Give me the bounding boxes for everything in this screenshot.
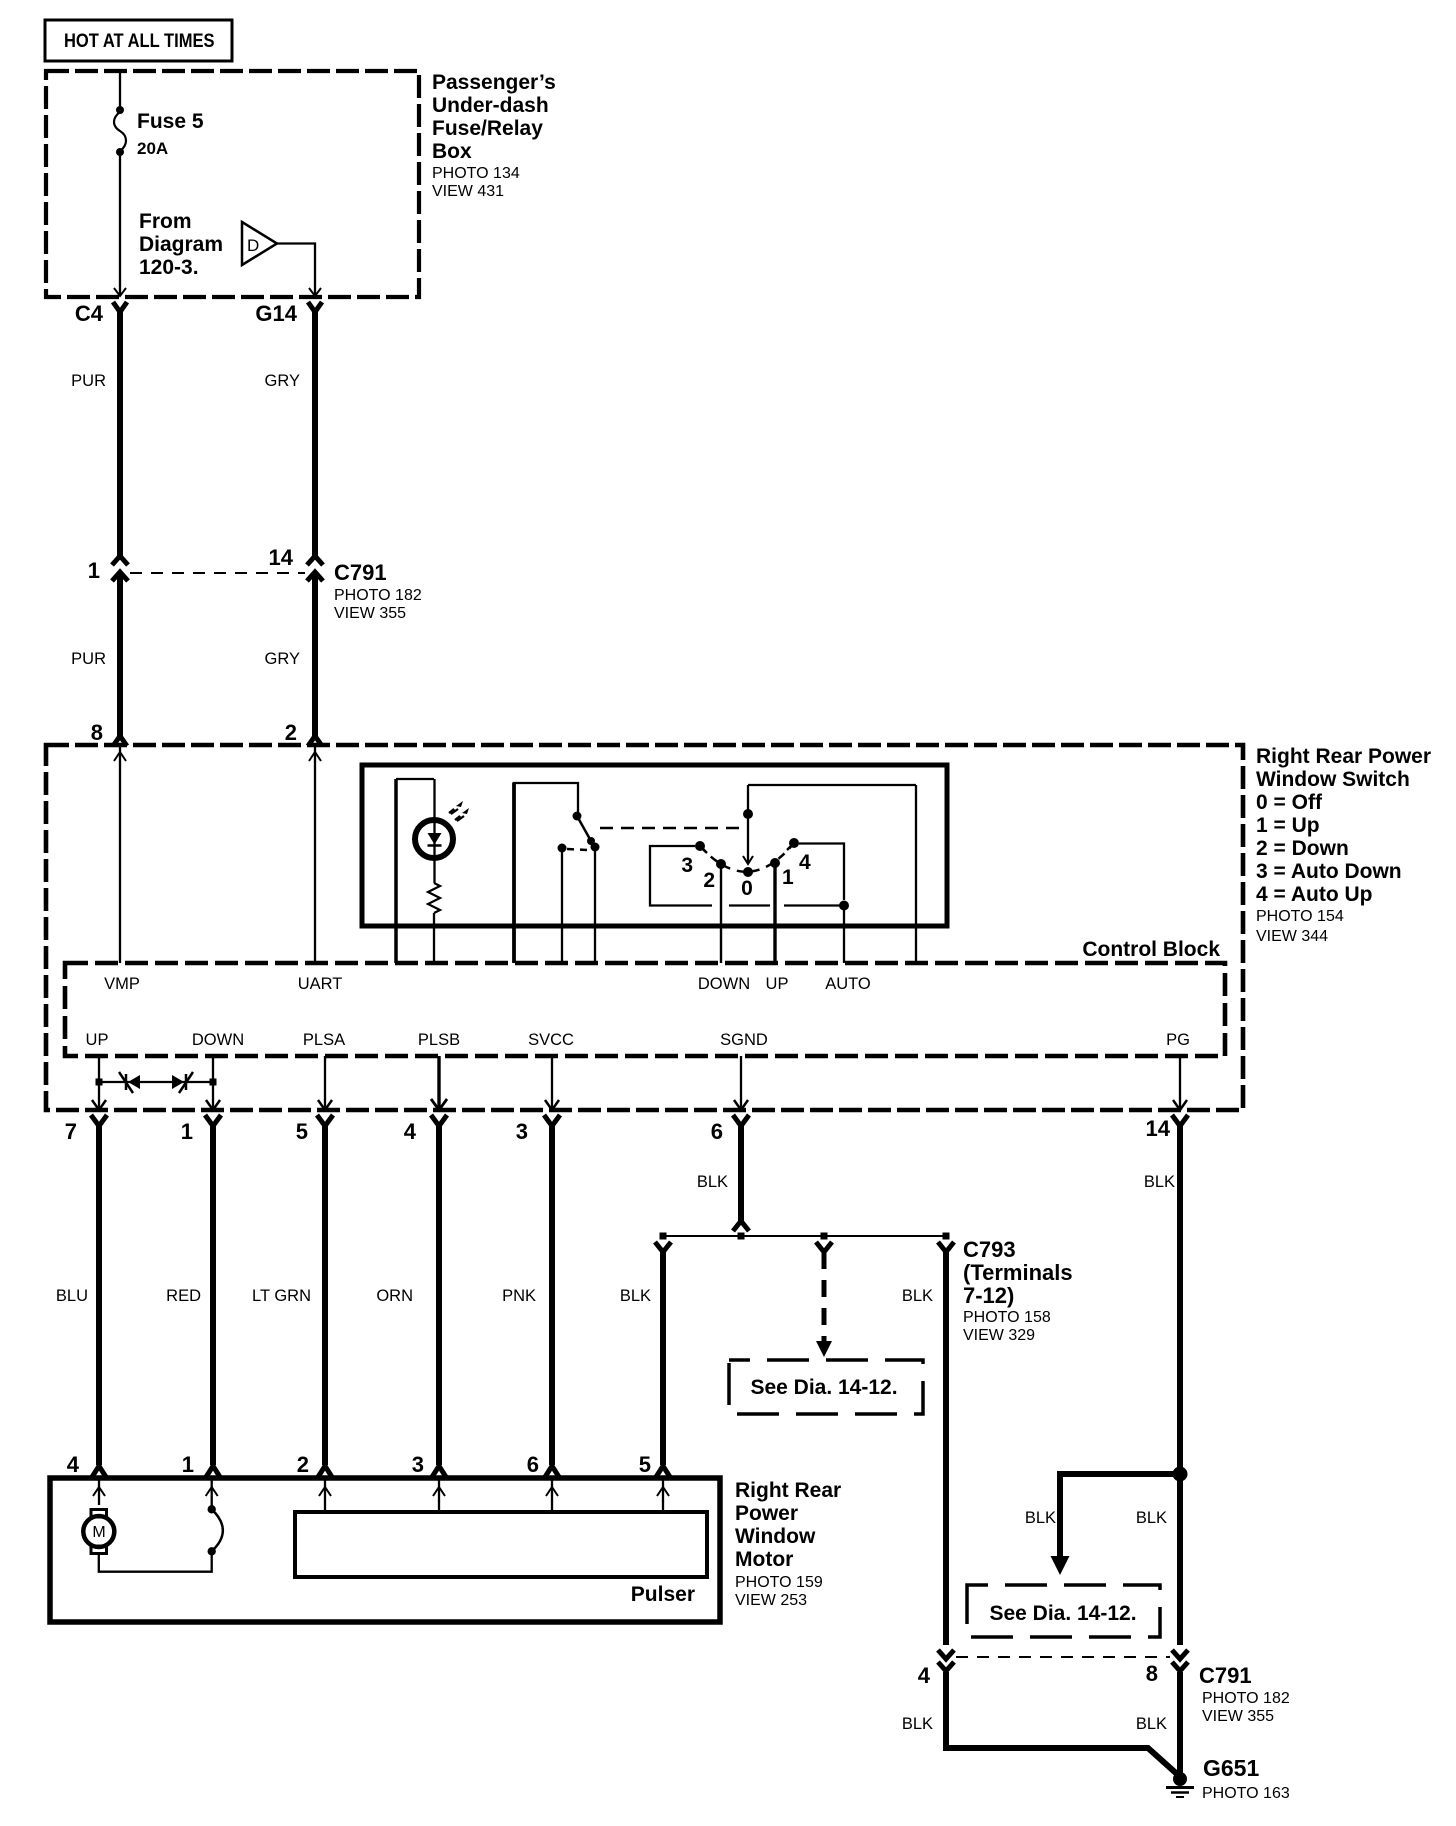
wire BLK C793 to C791 pin4 [902, 1248, 946, 1645]
wire PNK pin3 to motor pin6 [502, 1125, 559, 1477]
svg-text:SGND: SGND [720, 1031, 768, 1049]
pin 1 connector and label [181, 1115, 221, 1144]
svg-text:Pulser: Pulser [631, 1583, 695, 1606]
svg-text:PHOTO 154: PHOTO 154 [1256, 908, 1344, 925]
svg-text:See Dia. 14-12.: See Dia. 14-12. [750, 1376, 897, 1399]
fuse F5 [114, 106, 204, 158]
svg-text:VIEW 431: VIEW 431 [432, 183, 504, 200]
svg-text:VIEW 355: VIEW 355 [1202, 1708, 1274, 1725]
wire SVCC below control block [545, 1056, 559, 1110]
svg-text:2: 2 [703, 869, 715, 892]
motor pin entry arrows [93, 1480, 669, 1512]
svg-text:G14: G14 [255, 301, 297, 326]
wire BLK C793 to motor pin5 [620, 1248, 670, 1477]
wire GRY C791 to switch pin 2 [265, 576, 322, 746]
svg-text:UP: UP [766, 975, 789, 993]
svg-text:0 = Off: 0 = Off [1256, 791, 1323, 814]
svg-text:3: 3 [516, 1119, 528, 1144]
svg-text:8: 8 [91, 720, 103, 745]
svg-text:BLU: BLU [56, 1287, 88, 1305]
svg-text:AUTO: AUTO [825, 975, 871, 993]
svg-text:RED: RED [166, 1287, 201, 1305]
svg-text:1: 1 [181, 1119, 193, 1144]
inner switch detail box [362, 765, 947, 926]
svg-text:1: 1 [88, 558, 100, 583]
svg-text:BLK: BLK [1025, 1509, 1056, 1527]
control block dashed box [65, 963, 1225, 1056]
branch wire BLK to See Dia (lower) [1025, 1474, 1180, 1575]
connector C791 (lower) [918, 1650, 1290, 1725]
wire: feed into fuse [119, 71, 121, 110]
wire LT GRN pin5 to motor pin2 [252, 1125, 332, 1477]
svg-text:C791: C791 [1199, 1663, 1252, 1688]
wire: fuse to C4 exit [114, 154, 126, 296]
wire PLSB below control block (thick) [431, 1056, 447, 1110]
junction node on BLK wire [1173, 1467, 1188, 1482]
svg-text:Under-dash: Under-dash [432, 94, 549, 117]
connector G14 [255, 301, 322, 326]
clamp diode pair [96, 1072, 217, 1093]
svg-text:6: 6 [711, 1119, 723, 1144]
svg-text:20A: 20A [137, 139, 168, 158]
wire BLK C791 pin8 to ground [1136, 1672, 1180, 1774]
svg-text:From: From [139, 210, 192, 233]
svg-text:G651: G651 [1203, 1755, 1259, 1781]
svg-text:PLSB: PLSB [418, 1031, 460, 1049]
svg-text:BLK: BLK [1144, 1173, 1175, 1191]
svg-text:2: 2 [285, 720, 297, 745]
control block bottom row labels [86, 1031, 1190, 1049]
svg-text:2: 2 [297, 1452, 309, 1477]
svg-text:PHOTO 159: PHOTO 159 [735, 1574, 823, 1591]
wire DOWN (contact 2) [720, 864, 722, 963]
from-diagram triangle D [242, 222, 277, 265]
svg-text:4 = Auto Up: 4 = Auto Up [1256, 883, 1372, 906]
wire RED pin1 to motor pin1 [166, 1125, 220, 1477]
svg-text:C793: C793 [963, 1237, 1016, 1262]
latch switch S1 [513, 783, 600, 963]
svg-text:Fuse/Relay: Fuse/Relay [432, 117, 543, 140]
svg-text:3: 3 [412, 1452, 424, 1477]
svg-text:VIEW 355: VIEW 355 [334, 605, 406, 622]
motor label block [735, 1479, 841, 1609]
wire BLK pin6 to C793 [697, 1125, 749, 1231]
svg-text:1 = Up: 1 = Up [1256, 814, 1320, 837]
svg-text:LT GRN: LT GRN [252, 1287, 311, 1305]
svg-text:PHOTO 158: PHOTO 158 [963, 1309, 1051, 1326]
svg-text:VMP: VMP [104, 975, 140, 993]
connector C791 (upper) [88, 545, 422, 622]
svg-text:VIEW 344: VIEW 344 [1256, 928, 1328, 945]
pin 5 connector and label [296, 1115, 333, 1144]
rotary switch common [743, 785, 916, 963]
svg-text:Passenger’s: Passenger’s [432, 71, 556, 94]
svg-text:BLK: BLK [902, 1715, 933, 1733]
svg-text:Window: Window [735, 1525, 816, 1548]
svg-text:Box: Box [432, 140, 472, 163]
dashed wire C793 to See Dia (upper) [816, 1252, 832, 1357]
See Dia. 14-12. box (lower) [967, 1585, 1160, 1637]
svg-text:BLK: BLK [620, 1287, 651, 1305]
LED indicator [415, 779, 469, 883]
connector C4 [75, 301, 127, 326]
svg-text:PLSA: PLSA [303, 1031, 345, 1049]
box label: Passenger's Under-dash Fuse/Relay Box [432, 71, 556, 200]
pin 14 connector and label [1146, 1115, 1188, 1141]
svg-text:7: 7 [65, 1119, 77, 1144]
motor M [83, 1510, 211, 1572]
svg-text:PUR: PUR [71, 372, 106, 390]
C793 label block [963, 1237, 1073, 1344]
svg-text:PUR: PUR [71, 650, 106, 668]
Right Rear Power Window Switch dashed box [46, 745, 1243, 1110]
Right Rear Power Window Motor box [50, 1478, 720, 1622]
Passenger's Under-dash Fuse/Relay Box (dashed box) [46, 71, 419, 297]
Pulser box [295, 1512, 707, 1606]
svg-text:8: 8 [1146, 1661, 1158, 1686]
svg-text:4: 4 [918, 1663, 931, 1688]
wire BLK C791 pin4 to ground [902, 1672, 1177, 1774]
svg-text:UART: UART [298, 975, 343, 993]
svg-text:SVCC: SVCC [528, 1031, 574, 1049]
control block top row labels [104, 975, 871, 993]
wire GRY G14 to C791 [265, 310, 315, 556]
wire PLSA below control block [318, 1056, 332, 1110]
svg-text:ORN: ORN [376, 1287, 413, 1305]
svg-text:PHOTO 182: PHOTO 182 [334, 587, 422, 604]
svg-text:Right Rear Power: Right Rear Power [1256, 745, 1431, 768]
pin 3 connector and label [516, 1115, 560, 1144]
svg-text:BLK: BLK [1136, 1715, 1167, 1733]
wire UART (pin 2 into control block) [309, 747, 321, 963]
mechanical link (dashed) [600, 827, 746, 830]
wire PUR C4 to C791 [71, 310, 120, 556]
svg-text:120-3.: 120-3. [139, 256, 199, 279]
svg-text:Control Block: Control Block [1082, 938, 1220, 961]
svg-text:VIEW 329: VIEW 329 [963, 1327, 1035, 1344]
See Dia. 14-12. box (upper) [729, 1360, 923, 1414]
svg-text:6: 6 [527, 1452, 539, 1477]
svg-text:DOWN: DOWN [698, 975, 750, 993]
wire DOWN below control block [206, 1056, 220, 1110]
motor pin labels [67, 1452, 651, 1477]
pin 6 connector and label [711, 1115, 749, 1144]
connector C793 bus [655, 1233, 954, 1253]
svg-text:14: 14 [269, 545, 294, 570]
svg-text:4: 4 [404, 1119, 417, 1144]
svg-text:5: 5 [296, 1119, 308, 1144]
svg-text:DOWN: DOWN [192, 1031, 244, 1049]
svg-text:Right Rear: Right Rear [735, 1479, 841, 1502]
wire AUTO [843, 905, 845, 963]
wire PG below control block [1173, 1056, 1187, 1110]
svg-text:4: 4 [67, 1452, 80, 1477]
svg-text:1: 1 [782, 866, 794, 889]
svg-text:UP: UP [86, 1031, 109, 1049]
svg-text:PG: PG [1166, 1031, 1190, 1049]
svg-text:5: 5 [639, 1452, 651, 1477]
svg-text:HOT AT ALL TIMES: HOT AT ALL TIMES [64, 30, 215, 51]
svg-text:BLK: BLK [697, 1173, 728, 1191]
svg-text:2 = Down: 2 = Down [1256, 837, 1349, 860]
wire SGND below control block [734, 1056, 748, 1110]
svg-text:C791: C791 [334, 560, 387, 585]
HOT AT ALL TIMES box [45, 20, 232, 61]
svg-text:PHOTO 163: PHOTO 163 [1202, 1785, 1290, 1802]
svg-text:GRY: GRY [265, 650, 300, 668]
circuit breaker arc [208, 1505, 223, 1555]
right contact frame [799, 844, 844, 901]
wire PUR C791 to switch pin 8 [71, 576, 127, 746]
svg-text:GRY: GRY [265, 372, 300, 390]
svg-text:14: 14 [1146, 1116, 1171, 1141]
LED feed bend wire [396, 779, 434, 963]
wire BLU pin7 to motor pin4 [56, 1125, 106, 1477]
svg-text:BLK: BLK [902, 1287, 933, 1305]
svg-text:BLK: BLK [1136, 1509, 1167, 1527]
svg-text:C4: C4 [75, 301, 104, 326]
label: From Diagram 120-3. [139, 210, 223, 279]
svg-text:4: 4 [799, 851, 811, 874]
left contact frame [650, 846, 849, 911]
svg-text:VIEW 253: VIEW 253 [735, 1592, 807, 1609]
svg-text:M: M [92, 1524, 105, 1541]
svg-text:1: 1 [182, 1452, 194, 1477]
svg-text:0: 0 [741, 877, 753, 900]
svg-text:(Terminals: (Terminals [963, 1260, 1073, 1285]
svg-text:See Dia. 14-12.: See Dia. 14-12. [989, 1602, 1136, 1625]
svg-text:Fuse 5: Fuse 5 [137, 110, 204, 133]
svg-text:D: D [247, 236, 259, 255]
svg-text:PNK: PNK [502, 1287, 536, 1305]
wire: D triangle to G14 exit [277, 244, 321, 297]
wire BLK pin14 to C791 pin8 [1144, 1125, 1180, 1645]
wire VMP (pin 8 into control block) [114, 747, 126, 963]
resistor [428, 883, 440, 963]
wire ORN pin4 to motor pin3 [376, 1125, 446, 1477]
svg-text:7-12): 7-12) [963, 1283, 1014, 1308]
ground G651 [1166, 1755, 1290, 1802]
switch box label block [1256, 745, 1431, 945]
svg-text:Diagram: Diagram [139, 233, 223, 256]
svg-text:3: 3 [681, 854, 693, 877]
rotary contacts and detent arc [681, 838, 811, 900]
pin 4 connector and label [404, 1115, 447, 1144]
wire UP (contact 1) [773, 863, 776, 963]
wire UP below control block [92, 1056, 106, 1110]
svg-text:Window Switch: Window Switch [1256, 768, 1410, 791]
pin 7 connector and label [65, 1115, 107, 1144]
svg-text:Power: Power [735, 1502, 798, 1525]
svg-text:3 = Auto Down: 3 = Auto Down [1256, 860, 1402, 883]
svg-text:PHOTO 182: PHOTO 182 [1202, 1690, 1290, 1707]
svg-text:Motor: Motor [735, 1548, 793, 1571]
svg-text:PHOTO 134: PHOTO 134 [432, 165, 520, 182]
